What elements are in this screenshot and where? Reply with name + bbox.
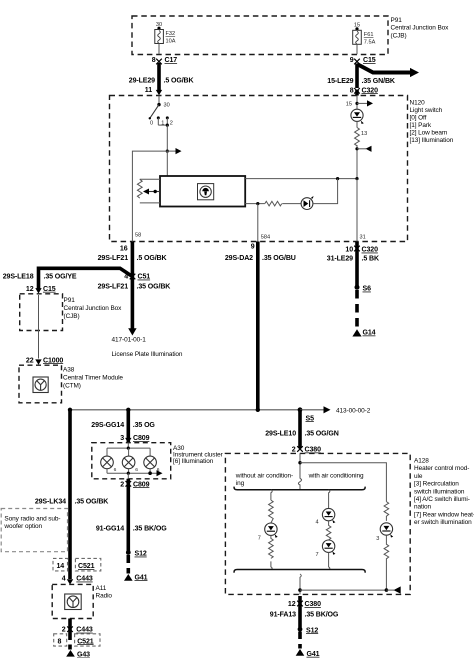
- svg-text:9: 9: [251, 243, 255, 250]
- bus wire (illumination feed): [70, 409, 300, 411]
- branch arrow to interior circuits: [167, 148, 181, 154]
- splice S6: [355, 285, 372, 293]
- connector C521 pin 8 (option boxes): [54, 634, 100, 646]
- node at cluster branch: [126, 408, 130, 412]
- connector C15 pin 12 (CJB): [26, 286, 56, 294]
- svg-text:C521: C521: [78, 563, 95, 570]
- svg-text:0: 0: [150, 121, 153, 127]
- svg-text:[0] Off: [0] Off: [410, 115, 427, 122]
- wire S12 to ground (dashed): [298, 632, 302, 649]
- wire dimmer lamp loop: [245, 202, 265, 205]
- svg-text:.35 OG/BK: .35 OG/BK: [137, 284, 172, 291]
- svg-text:C809: C809: [133, 435, 150, 442]
- fuse F61 7.5A: [353, 30, 376, 45]
- wire link contacts 1-2: [158, 124, 169, 127]
- svg-text:13: 13: [361, 131, 367, 137]
- wire S6 to ground (dashed): [355, 290, 359, 328]
- A128 label text: [414, 458, 474, 527]
- wire 29S-LK34 .35 OG/BK: [35, 410, 109, 579]
- svg-text:15: 15: [346, 102, 352, 108]
- svg-text:8: 8: [152, 57, 156, 64]
- wire 29S-LE10 .35 OG/GN: [265, 410, 338, 448]
- svg-text:G41: G41: [307, 651, 320, 658]
- svg-text:S6: S6: [363, 286, 372, 293]
- wire 31-LE29 .5 BK: [327, 242, 380, 287]
- wire 29S-LE18 .35 OG/YE branch: [3, 268, 133, 289]
- svg-text:6: 6: [114, 467, 117, 473]
- switch position 0: [150, 121, 153, 127]
- cluster internal bus bottom: [107, 470, 163, 479]
- svg-text:C15: C15: [43, 286, 56, 293]
- svg-text:Radio: Radio: [96, 593, 113, 600]
- CTM icon: [33, 377, 48, 393]
- switch position 1 contact: [157, 116, 165, 126]
- sony radio option note (dashed): [1, 509, 67, 552]
- ground G41 (left): [124, 574, 148, 581]
- ground G41 (right): [296, 649, 320, 658]
- fuse F32 10A: [155, 30, 176, 45]
- svg-text:11: 11: [145, 87, 152, 94]
- node at 29S-DA2: [256, 408, 260, 412]
- svg-text:6: 6: [135, 467, 138, 473]
- svg-text:G14: G14: [363, 330, 376, 337]
- off-page arrow 413-00-00-2: [300, 406, 371, 414]
- wire to dimmer feed (left leg): [132, 151, 167, 241]
- svg-text:58: 58: [135, 233, 141, 239]
- svg-text:S12: S12: [306, 627, 318, 634]
- P91 lower label text: [64, 297, 123, 320]
- lamp 7 branch (without A/C): [269, 490, 274, 523]
- svg-text:[13] Illumination: [13] Illumination: [410, 137, 454, 144]
- connector C809 pin 3: [120, 435, 149, 443]
- svg-text:Central Timer Module: Central Timer Module: [63, 375, 123, 382]
- feed coil joint: [298, 479, 301, 490]
- rear-window branch resistor upper: [384, 502, 389, 521]
- svg-text:.35 OG/YE: .35 OG/YE: [44, 274, 77, 281]
- wire to ground (dashed): [68, 633, 72, 650]
- svg-text:16: 16: [120, 246, 128, 253]
- svg-text:(CTM): (CTM): [63, 383, 81, 390]
- radio A11 (dashed): [52, 584, 93, 618]
- arrow to license plate illumination: [112, 328, 183, 358]
- cluster lamp 2 (pin 6): [122, 448, 138, 473]
- splice S12: [126, 550, 147, 558]
- svg-text:2: 2: [120, 481, 124, 488]
- svg-text:29-LE29: 29-LE29: [129, 78, 155, 85]
- svg-text:10A: 10A: [166, 39, 176, 45]
- svg-text:29S-LF21: 29S-LF21: [98, 284, 129, 291]
- svg-text:C17: C17: [165, 57, 178, 64]
- central junction box P91 (dashed enclosure): [132, 16, 388, 55]
- svg-text:413-00-00-2: 413-00-00-2: [336, 407, 371, 414]
- internal bus bar top: [234, 487, 365, 490]
- svg-text:Light switch: Light switch: [410, 107, 443, 114]
- svg-text:29S-LK34: 29S-LK34: [35, 498, 66, 505]
- lamp 7 (rear defrost sw, with A/C): [315, 540, 335, 558]
- connector C443 pin 4: [62, 576, 93, 585]
- svg-text:.35 OG/BK: .35 OG/BK: [75, 498, 110, 505]
- connector C380 pin 2: [292, 446, 321, 453]
- wire switch output to dimmer module: [166, 151, 168, 176]
- connector C809 pin 2: [120, 481, 149, 488]
- svg-text:C443: C443: [76, 627, 93, 634]
- svg-text:C809: C809: [133, 481, 150, 488]
- svg-text:Sony radio and sub-: Sony radio and sub-: [4, 515, 60, 522]
- svg-text:(CJB): (CJB): [391, 32, 407, 39]
- P91 label text: [391, 17, 450, 40]
- svg-text:2: 2: [62, 627, 66, 634]
- svg-text:woofer option: woofer option: [3, 523, 42, 530]
- svg-text:.35 OG/GN: .35 OG/GN: [305, 430, 339, 437]
- resistor 13 (dimming resistor): [355, 121, 368, 145]
- connector C521 pin 14 (option boxes): [53, 558, 101, 571]
- svg-text:Central Junction Box: Central Junction Box: [64, 305, 123, 312]
- svg-text:9: 9: [350, 57, 354, 64]
- svg-text:91-FA13: 91-FA13: [270, 612, 296, 619]
- node with incoming arrow: [355, 145, 371, 179]
- svg-text:without air condition-: without air condition-: [235, 472, 293, 479]
- wire switch output down: [166, 125, 169, 153]
- svg-text:C51: C51: [138, 274, 151, 281]
- svg-text:29S-LF21: 29S-LF21: [98, 255, 129, 262]
- svg-text:.35 OG: .35 OG: [133, 422, 156, 429]
- A38 label text: [63, 367, 123, 390]
- svg-text:ule: ule: [414, 473, 423, 480]
- connector C443 pin 2: [62, 619, 93, 634]
- svg-text:P91: P91: [64, 297, 76, 304]
- svg-text:[1] Park: [1] Park: [410, 122, 432, 129]
- svg-text:nation: nation: [414, 504, 432, 511]
- wire 29S-LF21 .5 OG/BK (pin 16): [98, 242, 168, 331]
- cluster internal bus top: [107, 443, 150, 450]
- svg-text:C320: C320: [362, 247, 379, 254]
- svg-text:10: 10: [345, 247, 353, 254]
- svg-text:.35 BK/OG: .35 BK/OG: [305, 612, 339, 619]
- connector C320 pin 10: [345, 246, 378, 254]
- svg-text:30: 30: [164, 103, 170, 109]
- ground G43: [66, 650, 90, 658]
- wire to rear-window branch: [300, 463, 386, 502]
- switch position 2 contact: [166, 116, 173, 126]
- node at radio branch: [68, 408, 72, 412]
- svg-text:417-01-00-1: 417-01-00-1: [112, 336, 147, 343]
- wire 29S-DA2 .35 OG/BU (pin 9): [225, 242, 296, 410]
- splice S12 (right): [298, 627, 319, 635]
- wire S12 to ground (dashed): [127, 555, 131, 574]
- svg-text:er switch illumination: er switch illumination: [414, 519, 472, 526]
- splice S5: [298, 407, 314, 422]
- svg-text:Central Junction Box: Central Junction Box: [391, 25, 450, 32]
- svg-text:switch illumination: switch illumination: [414, 488, 465, 495]
- switch wiper blade: [149, 105, 159, 120]
- svg-text:31-LE29: 31-LE29: [327, 255, 353, 262]
- svg-text:12: 12: [288, 601, 296, 608]
- svg-text:2: 2: [292, 447, 296, 454]
- svg-text:29S-GG14: 29S-GG14: [91, 422, 124, 429]
- svg-text:[6] Illumination: [6] Illumination: [173, 458, 214, 465]
- lamp 7 (recirc/without A/C): [258, 523, 278, 541]
- svg-text:A38: A38: [63, 367, 75, 374]
- lamp 4 branch (with A/C): [329, 490, 330, 509]
- svg-text:[3] Recirculation: [3] Recirculation: [414, 481, 459, 488]
- heater control module A128 (dashed): [225, 453, 410, 594]
- svg-text:S12: S12: [135, 551, 147, 558]
- wire 29-LE29 .5 OG/BK: [129, 63, 195, 95]
- wiper arrow into rheostat: [143, 189, 160, 195]
- svg-text:.35 BK/OG: .35 BK/OG: [133, 526, 167, 533]
- panel illumination lamp: [301, 196, 313, 210]
- svg-text:[4] A/C switch illumi-: [4] A/C switch illumi-: [414, 496, 470, 503]
- svg-text:8: 8: [350, 87, 354, 94]
- connector C51 pin 4: [124, 274, 150, 281]
- svg-text:22: 22: [26, 357, 34, 364]
- svg-text:C320: C320: [362, 87, 379, 94]
- pin 30 (fuse F32 top): [156, 22, 162, 30]
- svg-text:.5 OG/BK: .5 OG/BK: [137, 255, 168, 262]
- connector C1000 pin 22: [26, 357, 63, 365]
- A30 label text: [173, 445, 224, 465]
- svg-text:Heater control mod-: Heater control mod-: [414, 465, 469, 472]
- svg-text:1: 1: [161, 121, 164, 127]
- svg-text:29S-LE10: 29S-LE10: [265, 430, 296, 437]
- resistor (panel lamp series): [265, 201, 301, 206]
- node (heater feed): [298, 453, 301, 478]
- svg-text:A11: A11: [96, 585, 107, 592]
- wire fuse F32 to connector C17: [158, 44, 160, 55]
- light switch N120 (dashed enclosure): [110, 96, 408, 242]
- svg-text:S5: S5: [306, 415, 315, 422]
- wire dimmer output link: [245, 177, 358, 180]
- lamp 3 (recirculation): [376, 523, 393, 542]
- svg-text:N120: N120: [410, 100, 426, 107]
- svg-text:A128: A128: [414, 458, 429, 465]
- svg-text:ing: ing: [236, 480, 245, 487]
- lamp 7 lower resistor: [269, 535, 274, 569]
- rear-window branch resistor lower: [384, 535, 389, 590]
- connector C17 pin 8: [152, 57, 178, 64]
- wire lamp to bottom bar: [329, 552, 330, 569]
- rheostat R (dimmer potentiometer): [137, 179, 160, 203]
- cluster lamp 3 (pin 6): [144, 448, 160, 473]
- svg-text:.35 GN/BK: .35 GN/BK: [362, 78, 396, 85]
- bottom return wire: [298, 574, 401, 594]
- illumination lamp (switch internal): [351, 109, 364, 124]
- svg-text:7.5A: 7.5A: [364, 40, 376, 46]
- svg-text:C15: C15: [363, 57, 376, 64]
- svg-text:31: 31: [360, 235, 366, 241]
- svg-text:.35 OG/BU: .35 OG/BU: [262, 255, 296, 262]
- svg-text:G41: G41: [135, 574, 148, 581]
- svg-text:[7] Rear window heat-: [7] Rear window heat-: [414, 511, 474, 518]
- svg-text:C380: C380: [305, 447, 322, 454]
- svg-text:G43: G43: [77, 652, 90, 658]
- svg-text:29S-DA2: 29S-DA2: [225, 255, 253, 262]
- wire 29S-LF21 .35 OG/BK: [98, 284, 172, 291]
- svg-text:15-LE29: 15-LE29: [327, 78, 353, 85]
- node 15 with branch arrow: [346, 96, 373, 110]
- wire 15-LE29 .35 GN/BK: [327, 64, 396, 89]
- internal bus bar bottom: [234, 570, 365, 573]
- N120 label text: [410, 100, 454, 145]
- svg-text:7: 7: [258, 535, 261, 541]
- svg-text:F61: F61: [364, 32, 374, 38]
- connector C15 pin 9: [350, 57, 376, 64]
- ground G14: [352, 329, 375, 336]
- A11 label text: [96, 585, 113, 600]
- svg-text:C1000: C1000: [43, 357, 63, 364]
- node 30 (switch common): [157, 96, 169, 109]
- radio icon: [65, 594, 82, 610]
- svg-text:584: 584: [261, 235, 270, 241]
- off-page arrow (feed continues): [357, 64, 419, 77]
- svg-text:14: 14: [57, 563, 65, 570]
- svg-text:C443: C443: [76, 576, 93, 583]
- svg-text:29S-LE18: 29S-LE18: [3, 274, 34, 281]
- central timer module A38 (dashed): [19, 365, 62, 403]
- wire node 584 down: [258, 204, 270, 242]
- dimmer module block: [160, 176, 245, 207]
- wire CJB to CTM: [38, 295, 40, 359]
- svg-text:.5 BK: .5 BK: [362, 255, 380, 262]
- section labels: [235, 472, 364, 487]
- wire lamp to node: [313, 179, 338, 204]
- resistor between lamps: [326, 521, 331, 540]
- wire fuse F61 to connector C15: [356, 44, 358, 54]
- dimmer illumination icon: [198, 184, 214, 200]
- svg-text:(CJB): (CJB): [64, 313, 80, 320]
- connector C380 pin 12: [288, 601, 321, 608]
- svg-text:3: 3: [376, 536, 379, 542]
- instrument cluster A30 (dashed): [92, 443, 171, 479]
- svg-text:C380: C380: [305, 601, 322, 608]
- svg-text:4: 4: [315, 519, 318, 525]
- wire 91-GG14 .35 BK/OG: [96, 479, 167, 551]
- svg-text:7: 7: [315, 552, 318, 558]
- svg-text:4: 4: [62, 576, 66, 583]
- svg-text:8: 8: [58, 638, 62, 645]
- lamp 4 (A/C switch): [315, 508, 335, 525]
- svg-text:with air conditioning: with air conditioning: [308, 472, 364, 479]
- svg-text:P91: P91: [391, 17, 403, 24]
- svg-text:[2] Low beam: [2] Low beam: [410, 130, 448, 137]
- svg-text:.5 OG/BK: .5 OG/BK: [164, 78, 195, 85]
- wire 29S-GG14 .35 OG: [91, 410, 155, 443]
- wire node 31 down: [357, 179, 366, 242]
- svg-text:C521: C521: [77, 638, 94, 645]
- central junction box P91 (lower, dashed): [20, 294, 63, 331]
- svg-text:91-GG14: 91-GG14: [96, 526, 124, 533]
- svg-text:12: 12: [26, 286, 34, 293]
- connector C320 pin 8: [350, 87, 378, 95]
- svg-text:F32: F32: [166, 31, 176, 37]
- pin 15 (fuse F61 top): [354, 23, 360, 31]
- wire 91-FA13 .35 BK/OG: [270, 596, 339, 628]
- svg-text:3: 3: [120, 435, 124, 442]
- cluster lamp 1 (pin 6): [101, 448, 117, 473]
- svg-text:License Plate Illumination: License Plate Illumination: [112, 351, 183, 358]
- svg-text:2: 2: [170, 121, 173, 127]
